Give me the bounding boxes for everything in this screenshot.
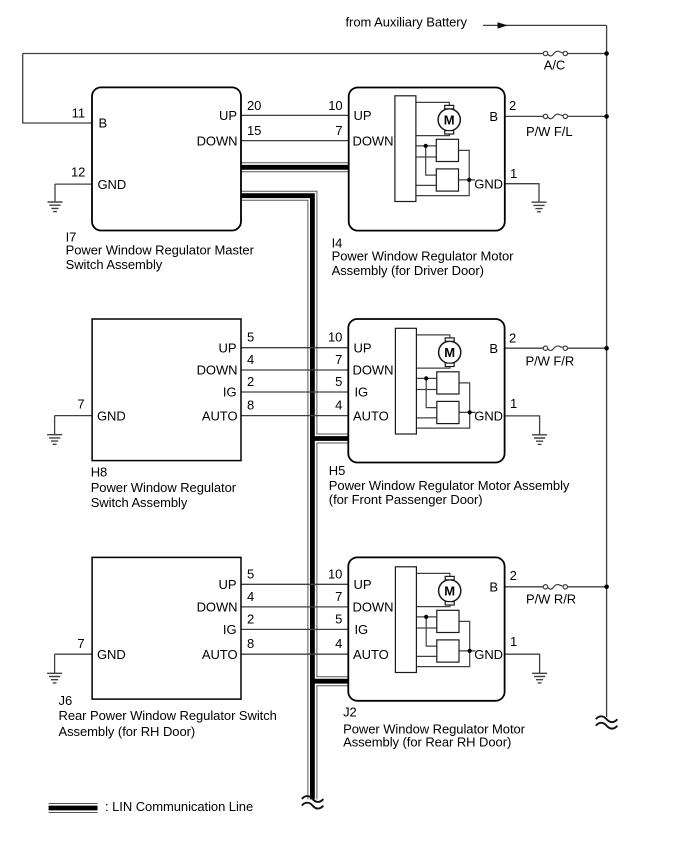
svg-text:Assembly (for Rear RH Door): Assembly (for Rear RH Door) bbox=[343, 734, 511, 749]
wire H5 GND pin 1 bbox=[505, 416, 540, 435]
label AUTO H5 bbox=[353, 408, 389, 423]
label fuse P/W F/R bbox=[526, 354, 575, 369]
svg-text:GND: GND bbox=[97, 647, 126, 662]
svg-text:5: 5 bbox=[335, 611, 342, 626]
motor assembly H5 internals (connector, motor M, relay blocks) bbox=[395, 328, 475, 434]
pin 1 H5 GND bbox=[510, 396, 517, 411]
label UP H5 bbox=[354, 340, 372, 355]
pin 7 J6 GND bbox=[77, 636, 84, 651]
svg-text:2: 2 bbox=[247, 374, 254, 389]
pin 4 J6 DOWN bbox=[247, 589, 254, 604]
svg-text:7: 7 bbox=[77, 636, 84, 651]
label GND J2 bbox=[474, 647, 503, 662]
pin 7 J2 DOWN bbox=[335, 589, 342, 604]
ground at H5 motor GND bbox=[532, 435, 547, 445]
svg-text:2: 2 bbox=[509, 330, 516, 345]
svg-text:Power Window Regulator: Power Window Regulator bbox=[91, 480, 237, 495]
pin 4 J2 AUTO bbox=[335, 636, 342, 651]
svg-text:1: 1 bbox=[510, 396, 517, 411]
pin 12 master GND bbox=[71, 164, 85, 179]
svg-text:8: 8 bbox=[247, 636, 254, 651]
wire J6 GND stem bbox=[54, 654, 56, 673]
wire J2 B to fuse bbox=[505, 586, 543, 588]
node bus-P/W F/R junction bbox=[604, 346, 609, 351]
svg-text:10: 10 bbox=[328, 330, 342, 345]
svg-text:AUTO: AUTO bbox=[202, 647, 238, 662]
svg-text:15: 15 bbox=[247, 123, 261, 138]
label AUTO J2 bbox=[353, 647, 389, 662]
motor assembly H5 box bbox=[348, 319, 504, 463]
svg-text:GND: GND bbox=[474, 176, 503, 191]
svg-text:B: B bbox=[489, 341, 498, 356]
svg-text:4: 4 bbox=[247, 352, 254, 367]
svg-text:J2: J2 bbox=[343, 704, 357, 719]
label GND I4 bbox=[474, 176, 503, 191]
label GND H5 bbox=[474, 409, 503, 424]
label fuse P/W R/R bbox=[526, 591, 576, 606]
label B I4 bbox=[489, 109, 498, 124]
svg-text:DOWN: DOWN bbox=[353, 600, 394, 615]
wire master GND stem bbox=[54, 184, 56, 202]
ground at I4 motor GND bbox=[532, 202, 547, 212]
arrowhead on auxiliary battery feed bbox=[498, 23, 507, 29]
motor assembly I4 box bbox=[349, 88, 505, 231]
svg-text:(for Front Passenger Door): (for Front Passenger Door) bbox=[329, 492, 483, 507]
label UP I4 bbox=[354, 108, 372, 123]
label IG J6 bbox=[223, 622, 237, 637]
wire H8 UP to H5 bbox=[241, 347, 349, 349]
label IG H8 bbox=[223, 385, 237, 400]
wire master DOWN to I4 DOWN bbox=[241, 140, 349, 142]
label IG H5 bbox=[355, 385, 369, 400]
label IG J2 bbox=[355, 622, 369, 637]
svg-text:UP: UP bbox=[219, 340, 237, 355]
pin 8 J6 AUTO bbox=[247, 636, 254, 651]
ground at J6 switch GND bbox=[47, 673, 62, 683]
label UP J6 bbox=[219, 577, 237, 592]
pin 5 H5 IG bbox=[335, 374, 342, 389]
svg-text:2: 2 bbox=[509, 98, 516, 113]
svg-text:Power Window Regulator Motor A: Power Window Regulator Motor Assembly bbox=[329, 478, 570, 493]
wire J6 DOWN to J2 bbox=[241, 606, 349, 608]
svg-text:4: 4 bbox=[335, 636, 342, 651]
svg-text:8: 8 bbox=[247, 398, 254, 413]
designator H5 text bbox=[329, 463, 570, 507]
svg-text:10: 10 bbox=[328, 566, 342, 581]
svg-text:Rear Power Window Regulator Sw: Rear Power Window Regulator Switch bbox=[59, 708, 277, 723]
svg-text:B: B bbox=[489, 580, 498, 595]
svg-text:P/W F/L: P/W F/L bbox=[526, 124, 573, 139]
designator I7 text bbox=[66, 229, 255, 272]
pin 2 J2 B bbox=[510, 568, 517, 583]
wire A/C fuse to bus bbox=[568, 53, 607, 55]
wire I4 B to fuse bbox=[505, 115, 544, 117]
svg-text:GND: GND bbox=[98, 177, 127, 192]
label GND master bbox=[98, 177, 127, 192]
svg-text:GND: GND bbox=[474, 409, 503, 424]
wire P/W F/R fuse to bus bbox=[568, 347, 607, 349]
pin 7 I4 DOWN bbox=[335, 123, 342, 138]
svg-text:Switch Assembly: Switch Assembly bbox=[66, 257, 163, 272]
wire J6 GND pin 7 bbox=[55, 653, 93, 655]
wire master GND pin 12 bbox=[55, 183, 93, 185]
switch J6 Rear Power Window Regulator Switch Assembly box bbox=[92, 557, 241, 699]
svg-text:UP: UP bbox=[354, 577, 372, 592]
motor assembly I4 internals (connector, motor M, relay blocks) bbox=[395, 96, 475, 202]
svg-text:AUTO: AUTO bbox=[353, 408, 389, 423]
wire H8 GND stem bbox=[54, 416, 56, 435]
designator H8 text bbox=[91, 464, 237, 510]
label B master bbox=[99, 116, 108, 131]
wire H8 IG to H5 bbox=[241, 391, 349, 393]
svg-text:DOWN: DOWN bbox=[197, 133, 238, 148]
pin 7 H5 DOWN bbox=[335, 352, 342, 367]
legend LIN text bbox=[105, 799, 253, 814]
svg-text:A/C: A/C bbox=[544, 58, 566, 73]
designator I4 text bbox=[332, 235, 515, 278]
svg-text:4: 4 bbox=[247, 589, 254, 604]
svg-text:DOWN: DOWN bbox=[353, 363, 394, 378]
label UP J2 bbox=[354, 577, 372, 592]
svg-text:GND: GND bbox=[474, 647, 503, 662]
node bus-P/W F/L junction bbox=[604, 114, 609, 119]
svg-text:AUTO: AUTO bbox=[353, 647, 389, 662]
pin 2 I4 B bbox=[509, 98, 516, 113]
pin 11 master B bbox=[72, 106, 85, 121]
label AUTO H8 bbox=[202, 408, 238, 423]
svg-text:H5: H5 bbox=[329, 463, 346, 478]
pin 5 H8 UP bbox=[247, 330, 254, 345]
designator J6 text bbox=[59, 693, 277, 739]
pin 8 H8 AUTO bbox=[247, 398, 254, 413]
svg-text:H8: H8 bbox=[91, 464, 108, 479]
wire H5 B to fuse bbox=[505, 347, 543, 349]
pin 2 H8 IG bbox=[247, 374, 254, 389]
svg-text:10: 10 bbox=[328, 98, 342, 113]
svg-text:7: 7 bbox=[335, 123, 342, 138]
fuse P/W R/R bbox=[543, 585, 567, 590]
label from Auxiliary Battery bbox=[346, 14, 468, 29]
op switch I7 Power Window Regulator Master Switch Assembly box bbox=[92, 87, 241, 230]
label DOWN H8 bbox=[197, 363, 238, 378]
wire J6 UP to J2 bbox=[241, 583, 349, 585]
pin 5 J6 UP bbox=[247, 566, 254, 581]
fuse P/W F/L bbox=[543, 114, 567, 119]
wire bus down-left to master B pin bbox=[23, 54, 93, 124]
pin 4 H5 AUTO bbox=[335, 398, 342, 413]
svg-text:IG: IG bbox=[223, 385, 237, 400]
label fuse P/W F/L bbox=[526, 124, 573, 139]
svg-text:J6: J6 bbox=[59, 693, 73, 708]
svg-text:DOWN: DOWN bbox=[353, 133, 394, 148]
svg-text:Assembly (for Driver Door): Assembly (for Driver Door) bbox=[332, 263, 484, 278]
wire right power bus bbox=[606, 25, 608, 717]
svg-text:1: 1 bbox=[510, 166, 517, 181]
svg-text:B: B bbox=[99, 116, 108, 131]
pin 4 H8 DOWN bbox=[247, 352, 254, 367]
wire H8 AUTO to H5 bbox=[241, 415, 349, 417]
pin 20 master UP bbox=[247, 98, 261, 113]
svg-text:Assembly (for RH Door): Assembly (for RH Door) bbox=[59, 724, 196, 739]
label GND H8 bbox=[97, 409, 126, 424]
break symbol bottom of LIN trunk bbox=[302, 796, 323, 808]
svg-text:IG: IG bbox=[355, 622, 369, 637]
svg-text:12: 12 bbox=[71, 164, 85, 179]
pin 10 H5 UP bbox=[328, 330, 342, 345]
motor assembly J2 internals (connector, motor M, relay blocks) bbox=[395, 567, 475, 673]
ground at J2 motor GND bbox=[532, 673, 547, 683]
svg-text:7: 7 bbox=[77, 397, 84, 412]
label AUTO J6 bbox=[202, 647, 238, 662]
pin 7 H8 GND bbox=[77, 397, 84, 412]
label DOWN J6 bbox=[197, 600, 238, 615]
pin 10 I4 UP bbox=[328, 98, 342, 113]
svg-text:Power Window Regulator Master: Power Window Regulator Master bbox=[66, 243, 255, 258]
label UP master bbox=[219, 108, 237, 123]
svg-text:5: 5 bbox=[247, 330, 254, 345]
label UP H8 bbox=[219, 340, 237, 355]
svg-text:DOWN: DOWN bbox=[197, 363, 238, 378]
fuse P/W F/R bbox=[543, 346, 567, 351]
svg-text:7: 7 bbox=[335, 352, 342, 367]
svg-text:4: 4 bbox=[335, 398, 342, 413]
wire J6 AUTO to J2 bbox=[241, 653, 349, 655]
wire I4 GND pin 1 bbox=[505, 184, 540, 203]
pin 2 H5 B bbox=[509, 330, 516, 345]
label fuse A/C bbox=[544, 58, 566, 73]
pin 2 J6 IG bbox=[247, 611, 254, 626]
pin 1 J2 GND bbox=[510, 634, 517, 649]
svg-text:20: 20 bbox=[247, 98, 261, 113]
svg-text:7: 7 bbox=[335, 589, 342, 604]
svg-text:IG: IG bbox=[355, 385, 369, 400]
svg-text:P/W F/R: P/W F/R bbox=[526, 354, 575, 369]
wire master UP to I4 UP bbox=[241, 114, 349, 116]
wire J6 IG to J2 bbox=[241, 628, 349, 630]
wire from auxiliary battery feed bbox=[483, 24, 607, 26]
svg-text:UP: UP bbox=[219, 577, 237, 592]
svg-text:P/W R/R: P/W R/R bbox=[526, 591, 576, 606]
label B J2 bbox=[489, 580, 498, 595]
wire P/W R/R fuse to bus bbox=[568, 586, 607, 588]
node bus-A/C junction bbox=[604, 51, 609, 56]
svg-text:UP: UP bbox=[354, 340, 372, 355]
svg-text:IG: IG bbox=[223, 622, 237, 637]
label DOWN I4 bbox=[353, 133, 394, 148]
label DOWN J2 bbox=[353, 600, 394, 615]
node bus-P/W R/R junction bbox=[604, 585, 609, 590]
svg-text:from Auxiliary Battery: from Auxiliary Battery bbox=[346, 14, 468, 29]
svg-text:AUTO: AUTO bbox=[202, 408, 238, 423]
label DOWN H5 bbox=[353, 363, 394, 378]
wire H8 GND pin 7 bbox=[55, 415, 93, 417]
label DOWN master bbox=[197, 133, 238, 148]
pin 5 J2 IG bbox=[335, 611, 342, 626]
svg-text:11: 11 bbox=[72, 106, 85, 121]
label GND J6 bbox=[97, 647, 126, 662]
wire J2 GND pin 1 bbox=[505, 654, 540, 673]
LIN communication lines (triple-stroke) bbox=[241, 167, 350, 799]
pin 15 master DOWN bbox=[247, 123, 261, 138]
svg-text:: LIN Communication Line: : LIN Communication Line bbox=[105, 799, 253, 814]
svg-text:B: B bbox=[489, 109, 498, 124]
label B H5 bbox=[489, 341, 498, 356]
svg-text:UP: UP bbox=[219, 108, 237, 123]
designator J2 text bbox=[343, 704, 526, 749]
svg-text:Power Window Regulator Motor: Power Window Regulator Motor bbox=[332, 249, 515, 264]
pin 10 J2 UP bbox=[328, 566, 342, 581]
wire battery to A/C fuse bbox=[23, 53, 544, 55]
svg-text:5: 5 bbox=[247, 566, 254, 581]
legend LIN line sample bbox=[49, 803, 98, 813]
svg-text:GND: GND bbox=[97, 409, 126, 424]
motor assembly J2 box bbox=[348, 557, 504, 700]
svg-text:Switch Assembly: Switch Assembly bbox=[91, 495, 188, 510]
fuse A/C bbox=[543, 51, 567, 56]
svg-text:2: 2 bbox=[510, 568, 517, 583]
svg-text:2: 2 bbox=[247, 611, 254, 626]
pin 1 I4 GND bbox=[510, 166, 517, 181]
svg-text:UP: UP bbox=[354, 108, 372, 123]
svg-text:5: 5 bbox=[335, 374, 342, 389]
switch H8 Power Window Regulator Switch Assembly box bbox=[92, 319, 241, 461]
wire P/W F/L fuse to bus bbox=[568, 115, 607, 117]
svg-text:DOWN: DOWN bbox=[197, 600, 238, 615]
svg-text:1: 1 bbox=[510, 634, 517, 649]
ground at master switch GND bbox=[48, 202, 63, 212]
wire H8 DOWN to H5 bbox=[241, 369, 349, 371]
ground at H8 switch GND bbox=[47, 435, 62, 445]
break symbol bottom of right bus bbox=[596, 716, 617, 728]
